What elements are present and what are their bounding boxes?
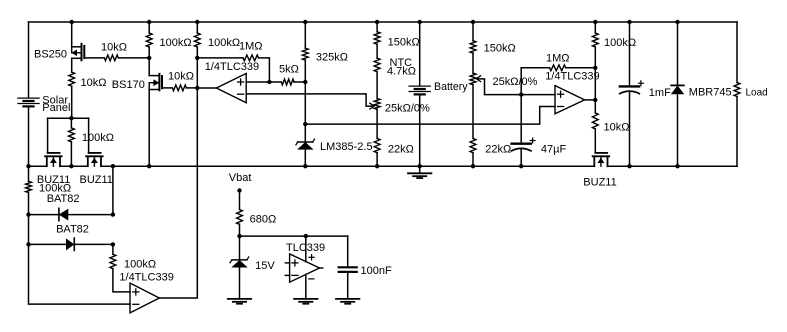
svg-text:Load: Load [746, 88, 768, 99]
resistor 22k (NTC divider bottom) [374, 138, 380, 152]
svg-text:100nF: 100nF [361, 265, 392, 277]
resistor 5k (to reference divider) [281, 79, 294, 85]
svg-text:100kΩ: 100kΩ [82, 132, 114, 144]
wire 150k to NTC [376, 44, 378, 58]
wire rail to 1mF [629, 22, 631, 86]
svg-text:10kΩ: 10kΩ [81, 77, 107, 89]
wiper arrow of battery pot [476, 76, 480, 79]
node BAT82 row2 left [26, 242, 30, 246]
node comparator output [593, 98, 597, 102]
resistor 150k (NTC divider top) [374, 32, 380, 44]
wire 100k down to 1M node [594, 47, 596, 68]
svg-text:4.7kΩ: 4.7kΩ [387, 66, 416, 78]
svg-text:Battery: Battery [434, 81, 468, 93]
wire + input to 5k [246, 81, 269, 83]
svg-text:BUZ11: BUZ11 [80, 174, 113, 186]
transistor BS170 (N-MOSFET) [148, 58, 150, 76]
node BUZ11 gates junction [69, 116, 73, 120]
node 15V supply junction [237, 234, 241, 238]
svg-text:5kΩ: 5kΩ [279, 63, 299, 75]
wire 100k down to mid bus segment [70, 118, 72, 128]
wire rail right end down to load [736, 22, 738, 83]
svg-text:100kΩ: 100kΩ [604, 37, 636, 49]
node TLC339 V+ junction [304, 234, 308, 238]
node 1mF bottom on bus [627, 164, 631, 168]
resistor 680 [237, 210, 243, 225]
wire solar panel negative down to bus [28, 106, 30, 166]
node reference (LM385 top / mid bus) [303, 122, 307, 126]
svg-text:MBR745: MBR745 [689, 87, 732, 99]
node battery divider on ground bus [471, 164, 475, 168]
svg-text:LM385-2.5: LM385-2.5 [320, 141, 373, 153]
wire comparator output left [197, 87, 216, 89]
wire 100k to BS170 drain node [148, 47, 150, 58]
wire BUZ11 gates bus [48, 117, 89, 119]
wire TLC339 V- pin to ground [305, 275, 307, 299]
svg-text:100kΩ: 100kΩ [124, 258, 156, 270]
svg-text:10kΩ: 10kΩ [101, 42, 127, 54]
node BAT82 row1 right [111, 212, 115, 216]
wire battery - to ground bus [419, 94, 421, 166]
wire between BAT82 rows left [28, 215, 30, 245]
solar panel (battery symbol) [18, 97, 39, 99]
node BS170 source on bus [147, 164, 151, 168]
wire 100k to comparator non-inverting input [113, 269, 130, 292]
wire comparator output to node column [159, 88, 197, 298]
op-amp U1b 1/4TLC339 (battery comparator) [555, 86, 585, 114]
svg-text:100kΩ: 100kΩ [160, 37, 192, 49]
node bus to BAT82 column [111, 164, 115, 168]
svg-text:100kΩ: 100kΩ [208, 37, 240, 49]
diode LM385-2.5 reference zener [304, 124, 306, 142]
transistor BS250 (P-MOSFET) [72, 46, 82, 48]
svg-text:47µF: 47µF [541, 143, 567, 155]
wire 10k to comparator output node [186, 87, 197, 89]
node + input / 5k junction [267, 80, 271, 84]
wire BAT82 row1 [29, 214, 113, 216]
node 47uF on ground bus [519, 164, 523, 168]
wire ground bus right segment (load return) [608, 165, 738, 167]
wire BS250 drain down [71, 58, 73, 72]
wire to BAT82 row [28, 193, 30, 215]
node BAT82 row1 left [26, 212, 30, 216]
diode zener 15V [239, 236, 241, 260]
svg-text:1/4TLC339: 1/4TLC339 [119, 271, 173, 283]
wire BS250 gate to 10k [84, 57, 104, 59]
wiper arrow of 25k pot (NTC) [370, 103, 374, 106]
node battery ground junction [418, 164, 422, 168]
wire 1M left to node [197, 57, 243, 59]
node comparator + input junction [519, 92, 523, 96]
svg-text:15V: 15V [255, 260, 275, 272]
op-amp U1d 1/4TLC339 (lower-left comparator) [130, 283, 159, 313]
svg-text:325kΩ: 325kΩ [316, 51, 348, 63]
svg-text:BAT82: BAT82 [56, 224, 89, 236]
wire 1M right to + input [259, 58, 270, 82]
svg-text:1MΩ: 1MΩ [239, 40, 263, 52]
svg-text:22kΩ: 22kΩ [388, 144, 414, 156]
wire ground bus main segment [101, 165, 594, 167]
wire BAT82 row2 [29, 243, 113, 245]
svg-text:25kΩ/0%: 25kΩ/0% [493, 76, 538, 88]
op-amp U1 TLC339 power symbol [290, 254, 320, 282]
resistor 10k (BS250 drain) [69, 72, 75, 86]
wire rail to battery + [419, 22, 421, 86]
wire panel negative node down [28, 166, 30, 181]
node LM385 anode on ground bus [303, 164, 307, 168]
wire gate lead BUZ11 right [88, 118, 90, 153]
wire Vbat down to 680 [239, 191, 241, 210]
svg-text:680Ω: 680Ω [250, 213, 277, 225]
resistor 10k (BS250 gate series) [104, 55, 118, 61]
capacitor 100nF (decoupling) [347, 236, 349, 267]
wire ground bus segment (solar panel negative) [29, 165, 47, 167]
wire rail to MBR745 [677, 22, 679, 85]
resistor NTC 4.7k [374, 58, 380, 72]
resistor 22k (battery divider bottom) [470, 138, 476, 152]
potentiometer 25k/0% (NTC trim) [374, 99, 380, 110]
svg-text:Vbat: Vbat [229, 172, 252, 184]
node comparator output junction [195, 86, 199, 90]
capacitor 47uF [520, 95, 522, 144]
potentiometer 25k/0% (battery trim) [470, 73, 476, 85]
transistor BUZ11 (load switch) [595, 152, 607, 154]
wire load to bus [736, 97, 738, 167]
wire 1M right to output node [566, 67, 596, 69]
wire left node down to comparator inverting input [29, 244, 131, 304]
svg-text:TLC339: TLC339 [286, 242, 325, 254]
wire BS170 gate to 10k [162, 87, 172, 89]
wire ground bus segment between BUZ11 pair [60, 165, 88, 167]
battery (accumulator) symbol [409, 85, 430, 87]
node feedback/1M junction [195, 56, 199, 60]
svg-text:1MΩ: 1MΩ [546, 52, 570, 64]
svg-text:10kΩ: 10kΩ [168, 71, 194, 83]
wire 1M left to + node [521, 68, 549, 95]
resistor 150k (battery divider top) [470, 41, 476, 53]
ground symbol (100nF) [336, 298, 359, 300]
svg-text:150kΩ: 150kΩ [388, 36, 420, 48]
wire to output node [594, 68, 596, 100]
svg-text:1/4TLC339: 1/4TLC339 [545, 71, 599, 83]
node MBR745 anode on bus [675, 164, 679, 168]
resistor 100k (driver pullup) [592, 33, 598, 47]
wire 680 to 15V node [239, 224, 241, 236]
diode BAT82 (upper, cathode left) [58, 208, 60, 220]
wire - input to NTC pot wiper [246, 94, 373, 106]
node NTC divider on ground bus [375, 164, 379, 168]
wire 10k to gate node of BUZ11 pair [71, 86, 73, 118]
wire down to reference node [304, 82, 306, 124]
wire gate lead BUZ11 left [47, 118, 49, 153]
wire rail to BS250 source [71, 22, 73, 47]
wire reference mid bus [305, 107, 555, 125]
resistor 10k (BUZ11 gate series) [592, 113, 598, 129]
wire 10k to drain node [118, 57, 149, 59]
wire 100k to feedback node [196, 47, 198, 58]
resistor 325k [302, 48, 308, 60]
node Vbat terminal [237, 188, 241, 192]
resistor 10k (BS170 gate series) [172, 85, 186, 91]
svg-text:22kΩ: 22kΩ [485, 144, 511, 156]
transistor BUZ11 (left) [48, 152, 60, 154]
capacitor 1mF [620, 85, 639, 87]
wire BAT82 node down to 100k [112, 244, 114, 254]
node 100k bottom on bus [69, 164, 73, 168]
wire 325k to 5k node [304, 60, 306, 82]
node solar panel negative junction [26, 164, 30, 168]
node 5k/325k junction [303, 80, 307, 84]
svg-text:BS170: BS170 [112, 79, 145, 91]
svg-text:150kΩ: 150kΩ [484, 42, 516, 54]
svg-text:BAT82: BAT82 [47, 193, 80, 205]
svg-text:BUZ11: BUZ11 [583, 176, 616, 188]
node junction dots on top rail [70, 20, 74, 24]
wire supply node to TLC339 and 100nF [240, 235, 348, 237]
node BAT82 row2 right [111, 242, 115, 246]
wire solar panel positive to rail [28, 22, 30, 98]
wire node column [196, 58, 198, 88]
svg-text:1/4TLC339: 1/4TLC339 [205, 61, 259, 73]
resistor 100k (panel sense upper) [26, 181, 32, 192]
resistor 100k (BS170 drain pullup) [146, 33, 152, 47]
wire 150k to pot [472, 53, 474, 73]
resistor 100k (gate pull) [69, 128, 75, 142]
svg-text:10kΩ: 10kΩ [604, 122, 630, 134]
wire NTC to pot [376, 72, 378, 99]
wire 22k to ground bus [376, 153, 378, 167]
ground symbol (TLC339) [294, 298, 317, 300]
resistor 100k (comparator pullup) [194, 33, 200, 47]
svg-text:BS250: BS250 [34, 49, 67, 61]
wire 10k to BUZ11 gate [594, 129, 596, 153]
wire + node to comparator [521, 94, 555, 96]
node BS170 drain / BS250 gate [147, 56, 151, 60]
wire down to BAT82 rows [112, 166, 114, 214]
wire pot down through mid bus to 22k [472, 85, 474, 139]
ground symbol (zener) [228, 298, 251, 300]
wire BS170 source down to bus [148, 90, 150, 167]
wire top supply rail [29, 21, 738, 23]
wire TLC339 V+ pin [305, 236, 307, 262]
svg-text:1mF: 1mF [649, 87, 671, 99]
wire wiper to comparator + node [478, 79, 522, 95]
resistor 100k (to comparator +) [110, 254, 116, 268]
diode MBR745 (Schottky, cathode up) [671, 84, 684, 86]
node 1M feedback junction [593, 66, 597, 70]
wire 22k to ground bus [472, 153, 474, 167]
svg-text:25kΩ/0%: 25kΩ/0% [385, 103, 430, 115]
wire output node to 10k [594, 100, 596, 113]
wire pot down through mid bus to 22k [376, 109, 378, 138]
resistor 1M (hysteresis, upper comparator) [243, 55, 259, 61]
resistor Load [734, 83, 740, 97]
svg-text:Panel: Panel [42, 102, 70, 114]
ground symbol (battery) [419, 166, 421, 173]
wire comparator output to node [585, 99, 596, 101]
resistor 1M (hysteresis, battery comparator) [550, 65, 566, 71]
op-amp U1a 1/4TLC339 (left-pointing comparator) [216, 73, 246, 102]
diode BAT82 (lower, cathode right) [73, 238, 75, 250]
transistor BUZ11 (second) [89, 152, 101, 154]
